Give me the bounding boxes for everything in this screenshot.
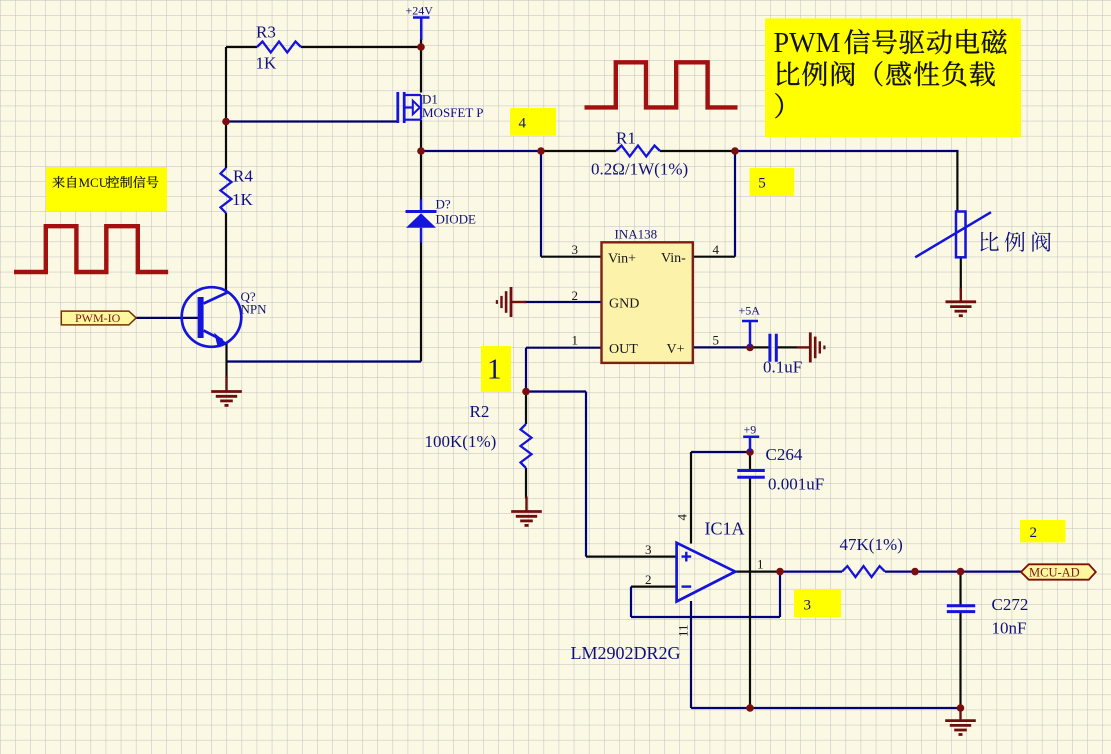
- svg-text:5: 5: [713, 333, 720, 348]
- wire +9 node to C264: [749, 452, 751, 470]
- svg-text:Vin+: Vin+: [608, 252, 636, 267]
- wire 47K to MCU-AD port: [885, 570, 1021, 572]
- wire op-amp output: [735, 570, 780, 572]
- svg-text:OUT: OUT: [609, 342, 638, 357]
- power +5A: [742, 321, 758, 347]
- svg-text:3: 3: [572, 242, 579, 257]
- wire node to R2: [525, 392, 527, 425]
- svg-text:1: 1: [757, 557, 764, 572]
- junction: [746, 344, 754, 352]
- wire down to valve: [956, 150, 958, 212]
- svg-text:2: 2: [1030, 525, 1038, 541]
- svg-text:NPN: NPN: [241, 302, 268, 317]
- svg-text:+24V: +24V: [406, 4, 434, 18]
- op-amp IC1A LM2902: [677, 543, 736, 602]
- svg-text:4: 4: [519, 116, 527, 132]
- junction: [911, 568, 919, 576]
- wire diode anode down: [420, 242, 422, 362]
- svg-text:R4: R4: [233, 167, 253, 186]
- capacitor C272 10nF: [947, 606, 975, 612]
- svg-text:DIODE: DIODE: [436, 212, 476, 227]
- callout box 5: [750, 168, 795, 196]
- wire feedback left vertical: [630, 587, 632, 617]
- svg-text:GND: GND: [609, 297, 639, 312]
- svg-text:2: 2: [572, 288, 579, 303]
- wire R3 right segment to +24V node: [301, 46, 421, 48]
- svg-text:MOSFET P: MOSFET P: [422, 105, 484, 120]
- power +24V: [413, 18, 430, 41]
- callout box 1: [481, 346, 511, 392]
- wire OUT down to node 1: [525, 348, 527, 392]
- wire valve to ground: [960, 258, 962, 291]
- wire op-amp pin 11 vertical: [690, 601, 692, 708]
- wire emitter branch to diode: [226, 360, 421, 362]
- svg-text:LM2902DR2G: LM2902DR2G: [571, 643, 681, 663]
- svg-text:MCU-AD: MCU-AD: [1029, 566, 1080, 580]
- proportional valve (bi li fa): [956, 212, 966, 258]
- wire C272 branch down: [959, 572, 961, 605]
- title text line 2: [777, 62, 800, 86]
- capacitor C264 0.001uF: [737, 471, 765, 478]
- wire node to diode cathode: [420, 151, 422, 200]
- wire node 1 to feedback corner: [526, 390, 586, 392]
- svg-text:5: 5: [758, 176, 766, 192]
- svg-text:2: 2: [645, 572, 652, 587]
- wire C272 to bottom rail: [959, 612, 961, 708]
- port PWM-IO: [61, 311, 136, 325]
- junction: [417, 147, 425, 155]
- svg-text:C272: C272: [992, 595, 1029, 614]
- capacitor 0.1uF: [770, 334, 776, 362]
- svg-text:11: 11: [676, 624, 691, 637]
- wire output to 47K: [780, 570, 842, 572]
- resistor R4 1K: [221, 168, 232, 213]
- resistor R1 0.2ohm: [616, 146, 660, 157]
- wire INA138 pin 3 stub: [541, 256, 602, 258]
- wire +24V to MOSFET drain: [420, 39, 422, 93]
- svg-text:R1: R1: [616, 129, 636, 148]
- svg-text:4: 4: [675, 514, 690, 521]
- callout box 4: [510, 108, 556, 136]
- resistor R3 1K: [257, 42, 301, 53]
- resistor 47K: [842, 566, 885, 577]
- wire R1 to valve: [735, 150, 959, 152]
- wire PWM-IO to base: [136, 317, 198, 319]
- svg-text:1K: 1K: [256, 54, 278, 73]
- resistor R2 100K: [521, 424, 532, 468]
- diode D?: [406, 200, 437, 243]
- svg-text:10nF: 10nF: [992, 619, 1027, 638]
- svg-text:PWM: PWM: [774, 28, 841, 59]
- PWM waveform top: [585, 62, 738, 107]
- wire main node to R1: [421, 150, 541, 152]
- junction: [957, 704, 965, 712]
- port MCU-AD: [1021, 564, 1096, 579]
- svg-text:0.001uF: 0.001uF: [768, 475, 824, 494]
- wire C264 down to bottom rail: [749, 479, 751, 709]
- ground at INA138 GND pin: [511, 301, 526, 303]
- junction: [731, 147, 739, 155]
- svg-text:C264: C264: [766, 445, 803, 464]
- title box: PWM signal drives proportional valve: [765, 18, 1021, 137]
- wire R1 left lead: [541, 150, 616, 152]
- wire branch to INA138 pin4: [734, 151, 736, 257]
- ground right of 0.1uF: [797, 346, 810, 348]
- wire op-amp pin 2 input: [631, 585, 677, 587]
- PWM waveform left: [14, 226, 168, 272]
- ground below C272: [959, 707, 961, 721]
- transistor Q? NPN: [182, 287, 242, 347]
- power +9: [743, 437, 759, 452]
- svg-text:R2: R2: [470, 402, 490, 421]
- svg-text:4: 4: [713, 242, 720, 257]
- wire R1 right lead: [660, 150, 735, 152]
- ground below R2: [525, 497, 527, 512]
- ground below transistor: [225, 376, 227, 392]
- callout box 3: [794, 589, 841, 617]
- svg-text:1: 1: [572, 333, 579, 348]
- callout box 2: [1020, 520, 1066, 542]
- wire INA138 pin 4 stub: [693, 256, 735, 258]
- svg-text:R3: R3: [256, 23, 276, 42]
- transistor D1 MOSFET P: [398, 92, 421, 123]
- valve label: [980, 232, 998, 251]
- ground below valve: [960, 288, 962, 302]
- svg-text:3: 3: [804, 598, 812, 614]
- title text line 3: [775, 93, 783, 118]
- wire bottom rail: [691, 707, 961, 709]
- wire INA138 OUT stub: [526, 347, 602, 349]
- wire branch to INA138 pin3: [540, 151, 542, 257]
- junction: [776, 568, 784, 576]
- svg-text:Vin-: Vin-: [661, 251, 686, 266]
- wire emitter to ground: [225, 342, 227, 378]
- svg-text:+5A: +5A: [739, 304, 761, 318]
- svg-text:3: 3: [645, 542, 652, 557]
- svg-text:V+: V+: [667, 342, 685, 357]
- op-amp U? INA138 current-sense amplifier: [602, 242, 693, 363]
- wire INA138 GND pin stub: [524, 301, 602, 303]
- wire INA138 V+ stub to +5A node: [693, 346, 750, 348]
- note box: signal from MCU: [46, 167, 167, 211]
- wire gate drive: [226, 120, 397, 122]
- junction: [522, 388, 530, 396]
- svg-text:1K: 1K: [232, 190, 254, 209]
- svg-text:+9: +9: [744, 423, 757, 437]
- wire op-amp pin 4 vertical: [690, 452, 692, 544]
- svg-text:D?: D?: [436, 197, 451, 212]
- junction: [417, 43, 425, 51]
- wire +9 rail to op-amp pin4: [691, 451, 750, 453]
- wire R3 left segment: [226, 46, 257, 48]
- wire MOSFET source down to node: [420, 120, 422, 151]
- junction: [746, 704, 754, 712]
- wire 0.1uF to ground lead: [778, 346, 798, 348]
- wire R4 to transistor collector: [225, 213, 227, 293]
- wire R2 to ground: [525, 468, 527, 499]
- junction: [746, 448, 754, 456]
- junction: [222, 118, 230, 126]
- svg-text:100K(1%): 100K(1%): [425, 432, 497, 451]
- svg-text:INA138: INA138: [615, 227, 658, 242]
- note text: from MCU control signal: [52, 176, 64, 188]
- svg-text:IC1A: IC1A: [705, 519, 745, 539]
- svg-text:1: 1: [487, 354, 502, 386]
- wire down to op-amp pin3: [585, 392, 587, 557]
- svg-text:PWM-IO: PWM-IO: [75, 311, 121, 325]
- wire left vertical R3 to R4: [225, 47, 227, 168]
- svg-text:0.2Ω/1W(1%): 0.2Ω/1W(1%): [591, 160, 688, 179]
- wire op-amp pin 3 input: [586, 555, 677, 557]
- junction: [537, 147, 545, 155]
- svg-text:47K(1%): 47K(1%): [840, 535, 903, 554]
- svg-text:MCU: MCU: [79, 175, 109, 190]
- wire +5A node to 0.1uF: [750, 346, 769, 348]
- wire feedback bottom: [631, 616, 780, 618]
- junction: [957, 568, 965, 576]
- wire feedback up to output: [779, 572, 781, 617]
- svg-text:0.1uF: 0.1uF: [763, 358, 802, 377]
